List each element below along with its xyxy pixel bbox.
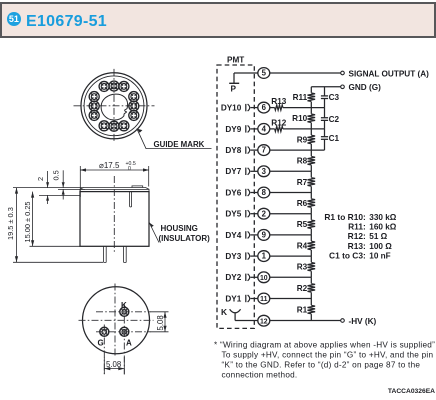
svg-text:GND (G): GND (G) xyxy=(349,83,382,92)
svg-text:A: A xyxy=(126,339,132,348)
wire cathode to pin 12 xyxy=(235,320,258,322)
resistor R8 xyxy=(297,157,315,166)
wire dynode to pin 8 xyxy=(250,192,257,194)
terminal -HV (K) xyxy=(341,317,377,326)
wire dynode to pin 3 xyxy=(250,170,257,172)
pin 8 xyxy=(258,187,270,198)
pin 6 xyxy=(258,102,270,113)
svg-text:C1 to C3:: C1 to C3: xyxy=(329,250,366,260)
anode P xyxy=(229,73,239,94)
dynode DY4 xyxy=(225,231,249,240)
dynode DY1 xyxy=(225,294,249,303)
svg-text:330 kΩ: 330 kΩ xyxy=(369,213,396,222)
bus wire segment xyxy=(310,150,312,156)
side view bottom pins xyxy=(104,246,127,262)
wire pin 9 row xyxy=(270,234,312,236)
svg-text:R3: R3 xyxy=(297,263,308,272)
wire pin 1 row xyxy=(270,255,312,257)
svg-text:SIGNAL OUTPUT (A): SIGNAL OUTPUT (A) xyxy=(349,69,430,78)
PMT dashed outline box xyxy=(217,65,254,328)
wire dynode to pin 6 xyxy=(250,107,257,109)
svg-text:12: 12 xyxy=(260,318,268,325)
bus wire segment xyxy=(310,277,312,283)
wire pin 10 row xyxy=(270,276,312,278)
resistor R11 xyxy=(293,93,315,102)
svg-text:9: 9 xyxy=(262,231,267,240)
bus wire segment xyxy=(310,299,312,306)
svg-text:6: 6 xyxy=(262,103,267,112)
svg-text:DY3: DY3 xyxy=(225,252,241,261)
wire pin 12 to -HV xyxy=(270,320,341,322)
svg-text:R5: R5 xyxy=(297,220,308,229)
dynode DY5 xyxy=(225,210,249,219)
svg-text:P: P xyxy=(231,85,237,94)
svg-text:HOUSING: HOUSING xyxy=(161,224,198,233)
side view housing body xyxy=(80,192,149,247)
dimension 17.5 +0.5/0 xyxy=(80,161,149,197)
pin G xyxy=(98,327,109,347)
dimension 5.08 horizontal xyxy=(104,357,124,374)
bus wire segment xyxy=(310,214,312,220)
badge 51 xyxy=(7,12,21,26)
svg-text:R13: R13 xyxy=(271,97,286,106)
svg-text:R11: R11 xyxy=(293,93,308,102)
svg-text:10 nF: 10 nF xyxy=(369,251,390,260)
svg-text:C3: C3 xyxy=(329,93,340,102)
svg-text:10: 10 xyxy=(260,275,268,282)
wire dynode to pin 7 xyxy=(250,149,257,151)
svg-text:(INSULATOR): (INSULATOR) xyxy=(159,234,211,243)
bus wire segment xyxy=(310,235,312,241)
wire anode to pin 5 xyxy=(234,72,258,74)
svg-text:5.08: 5.08 xyxy=(106,360,121,369)
bus wire segment xyxy=(310,87,312,93)
svg-text:K: K xyxy=(121,301,127,310)
component values table xyxy=(324,212,396,260)
label HOUSING (INSULATOR) with leader xyxy=(149,223,210,244)
svg-text:0: 0 xyxy=(128,166,131,172)
wire pin 8 row xyxy=(270,192,312,194)
svg-text:0.5: 0.5 xyxy=(52,170,61,180)
svg-text:R1 to R10:: R1 to R10: xyxy=(324,212,365,222)
resistor R4 xyxy=(297,241,315,250)
wire pin 6 row xyxy=(270,107,325,109)
pin 12 xyxy=(258,315,270,326)
dynode DY7 xyxy=(225,167,249,176)
bottom view centerlines xyxy=(79,284,154,358)
svg-text:DY2: DY2 xyxy=(225,273,241,282)
resistor R7 xyxy=(297,178,315,187)
svg-text:4: 4 xyxy=(262,125,267,134)
wire dynode to pin 1 xyxy=(250,255,257,257)
svg-text:2: 2 xyxy=(262,209,267,218)
svg-text:R4: R4 xyxy=(297,241,308,250)
pin K xyxy=(120,301,129,316)
top view pin ring (12 contact pins) xyxy=(89,81,139,131)
svg-text:⌀17.5: ⌀17.5 xyxy=(99,161,120,170)
dimension 15.00 ±0.25 xyxy=(23,192,80,247)
svg-text:DY9: DY9 xyxy=(225,125,241,134)
wire dynode to pin 10 xyxy=(250,276,257,278)
svg-text:K: K xyxy=(221,307,227,317)
capacitor C2 xyxy=(321,108,340,129)
wire dynode to pin 9 xyxy=(250,234,257,236)
dimension 19.5 ±0.3 xyxy=(6,188,103,263)
svg-text:5.08: 5.08 xyxy=(156,315,165,330)
svg-text:R11:: R11: xyxy=(348,222,366,232)
dimension 5.08 vertical xyxy=(150,312,169,332)
svg-text:R12:: R12: xyxy=(348,231,366,241)
resistor R1 xyxy=(297,305,315,314)
bus wire segment xyxy=(310,171,312,177)
bottom view pin axis lines xyxy=(96,304,151,375)
svg-text:160 kΩ: 160 kΩ xyxy=(369,223,396,232)
svg-text:11: 11 xyxy=(260,296,267,303)
svg-text:51 Ω: 51 Ω xyxy=(369,232,387,241)
wire dynode to pin 4 xyxy=(250,128,257,130)
side view inner contact pin xyxy=(130,192,132,207)
wire pin 7 row xyxy=(270,149,325,151)
footnote wiring note xyxy=(214,340,435,379)
dynode DY8 xyxy=(225,146,249,155)
pin 3 xyxy=(258,166,270,177)
terminal GND (G) xyxy=(341,83,381,92)
pin 7 xyxy=(258,145,270,156)
bus wire lower segments xyxy=(310,102,312,299)
guide key hole xyxy=(101,94,128,120)
svg-text:DY7: DY7 xyxy=(225,167,241,176)
svg-text:“K” to the GND. Refer to “(d): “K” to the GND. Refer to “(d) d-2” on pa… xyxy=(222,360,421,369)
svg-text:R10: R10 xyxy=(292,114,307,123)
wire GND xyxy=(311,86,340,88)
header bar xyxy=(0,2,436,38)
svg-text:R6: R6 xyxy=(297,199,308,208)
bus wire segment xyxy=(310,256,312,262)
dimension 2 xyxy=(36,171,49,204)
svg-text:R13:: R13: xyxy=(348,241,366,251)
resistor R12 xyxy=(271,118,286,131)
pin 10 xyxy=(258,272,270,283)
svg-text:G: G xyxy=(98,339,104,348)
dimension 0.5 xyxy=(52,170,85,199)
dynode DY9 xyxy=(225,125,249,134)
svg-text:R12: R12 xyxy=(271,118,286,127)
wire pin 2 row xyxy=(270,213,312,215)
svg-text:R9: R9 xyxy=(297,135,308,144)
svg-text:R1: R1 xyxy=(297,306,308,315)
pin 1 xyxy=(258,251,270,262)
svg-text:5: 5 xyxy=(262,69,267,78)
resistor R9 xyxy=(297,135,315,144)
wire dynode to pin 11 xyxy=(250,298,257,300)
svg-text:2: 2 xyxy=(36,177,45,181)
bottom view outline xyxy=(83,287,150,354)
bus wire segment xyxy=(310,108,312,114)
svg-text:1: 1 xyxy=(262,252,267,261)
svg-text:-HV (K): -HV (K) xyxy=(349,317,377,326)
svg-text:7: 7 xyxy=(262,146,266,155)
pin 4 xyxy=(258,123,270,134)
svg-text:8: 8 xyxy=(262,188,267,197)
svg-text:* “Wiring diagram at above app: * “Wiring diagram at above applies when … xyxy=(214,340,435,349)
dynode DY6 xyxy=(225,188,249,197)
svg-text:GUIDE MARK: GUIDE MARK xyxy=(154,140,205,149)
resistor R3 xyxy=(297,263,315,272)
guide mark leader xyxy=(137,129,212,149)
svg-text:C1: C1 xyxy=(329,134,340,143)
wire pin 3 row xyxy=(270,170,312,172)
capacitor C3 xyxy=(321,87,340,108)
top view centerlines xyxy=(74,69,155,143)
svg-text:15.00 ± 0.25: 15.00 ± 0.25 xyxy=(23,201,32,242)
pin 9 xyxy=(258,230,270,241)
svg-text:100 Ω: 100 Ω xyxy=(369,242,392,251)
wire pin 11 row xyxy=(270,298,312,300)
wire dynode to pin 2 xyxy=(250,213,257,215)
svg-text:TACCA0326EA: TACCA0326EA xyxy=(388,388,435,395)
svg-text:DY8: DY8 xyxy=(225,146,241,155)
svg-text:19.5 ± 0.3: 19.5 ± 0.3 xyxy=(6,207,15,240)
svg-text:C2: C2 xyxy=(329,115,340,124)
resistor R6 xyxy=(297,199,315,208)
svg-text:DY10: DY10 xyxy=(221,104,242,113)
wire pin 5 to signal output xyxy=(270,72,341,74)
bus wire segment xyxy=(310,129,312,135)
svg-text:DY1: DY1 xyxy=(225,294,241,303)
bus wire segment xyxy=(310,193,312,199)
terminal SIGNAL OUTPUT (A) xyxy=(341,69,429,78)
svg-text:R2: R2 xyxy=(297,284,308,293)
svg-text:To supply +HV, connect the pin: To supply +HV, connect the pin “G” to +H… xyxy=(222,350,434,359)
resistor R2 xyxy=(297,284,315,293)
svg-text:DY6: DY6 xyxy=(225,188,241,197)
svg-text:R7: R7 xyxy=(297,178,308,187)
resistor R5 xyxy=(297,220,315,229)
svg-text:PMT: PMT xyxy=(227,56,244,65)
pin A xyxy=(120,327,132,347)
dynode DY10 xyxy=(221,104,250,113)
side view top wafer plate xyxy=(80,186,149,192)
svg-text:R8: R8 xyxy=(297,157,308,166)
svg-text:connection method.: connection method. xyxy=(222,370,298,379)
svg-text:DY4: DY4 xyxy=(225,231,241,240)
svg-text:DY5: DY5 xyxy=(225,210,241,219)
dynode DY2 xyxy=(225,273,249,282)
top view socket outline xyxy=(81,73,147,139)
capacitor C1 xyxy=(321,129,340,150)
dynode DY3 xyxy=(225,252,249,261)
wire pin 4 row xyxy=(270,128,325,130)
cathode K xyxy=(221,307,241,321)
title E10679-51 xyxy=(26,13,107,31)
side view centerline xyxy=(113,176,115,253)
resistor R13 xyxy=(271,97,286,110)
svg-text:3: 3 xyxy=(262,167,267,176)
pin 2 xyxy=(258,208,270,219)
resistor R10 xyxy=(292,114,315,123)
pin 5 xyxy=(258,68,270,79)
pin 11 xyxy=(258,293,270,304)
